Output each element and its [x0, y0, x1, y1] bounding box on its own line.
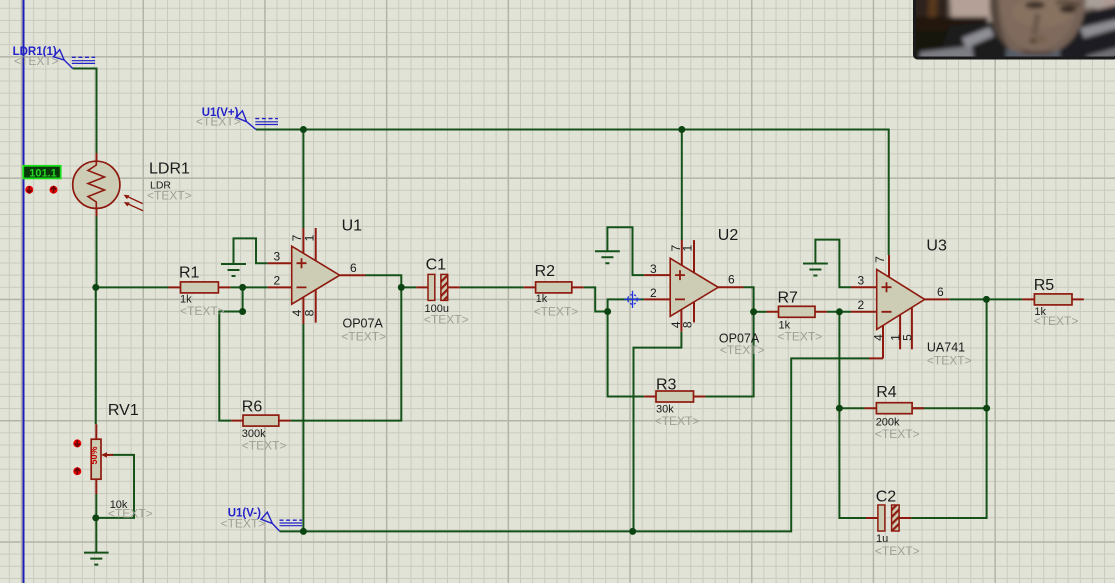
LDR1 light arrow 2	[127, 204, 143, 211]
wire: input node down to RV1	[95, 287, 97, 424]
LDR1 body	[73, 161, 120, 208]
wire: U2 output to R7 node	[744, 287, 754, 312]
cam: left shoulder sweater dark	[936, 20, 1014, 64]
wire: LDR1(1) terminal to LDR top	[73, 69, 97, 154]
svg-text:C2: C2	[876, 489, 897, 506]
pin U3.2	[851, 311, 877, 313]
svg-text:6: 6	[728, 273, 735, 287]
cam: right eyebrow	[1056, 2, 1080, 5]
node: V+ / U2 pin7	[678, 126, 685, 133]
cam: dark cushion band	[910, 17, 988, 32]
resistor R2 1k	[536, 282, 572, 293]
svg-text:2: 2	[274, 274, 281, 288]
LDR1 zigzag	[88, 162, 105, 208]
wire: C2 right to U3 output vertical	[911, 299, 987, 518]
pin U1.3	[268, 262, 292, 264]
op-amp U2 plus/minus	[675, 270, 685, 299]
svg-text:50%: 50%	[89, 446, 99, 464]
svg-text:R3: R3	[656, 377, 677, 394]
resistor R6 300k	[243, 415, 279, 426]
RV1 animation dot up	[73, 467, 81, 475]
wire: U1 feedback left leg to R6	[219, 287, 242, 420]
cam: base grayish	[904, 0, 1115, 70]
resistor R1 1k	[181, 282, 219, 293]
ground near U1	[221, 264, 246, 276]
capacitor C1 100u plate1	[428, 274, 435, 300]
svg-text:3: 3	[274, 250, 281, 264]
op-amp U1 plus/minus	[297, 258, 307, 287]
pin U2.1 stub	[693, 240, 695, 273]
op-amp U2 body	[670, 258, 718, 316]
leads R7	[767, 311, 827, 313]
wire: input node to R1	[96, 286, 169, 288]
wire: C1 to R2	[460, 286, 524, 288]
wire: node down to R4 line	[839, 312, 864, 408]
svg-text:<TEXT>: <TEXT>	[875, 427, 920, 441]
pin U2.7	[681, 240, 683, 265]
svg-text:UA741: UA741	[927, 341, 965, 355]
svg-text:1u: 1u	[876, 533, 888, 545]
leads RV1	[95, 424, 97, 494]
leads R6	[231, 420, 290, 422]
pin U3.1 stub	[899, 315, 901, 350]
svg-text:6: 6	[937, 285, 944, 299]
svg-text:1: 1	[681, 245, 695, 252]
cam: bottom-left light stripe	[920, 46, 974, 62]
pin U1.8 stub	[315, 290, 317, 323]
svg-text:<TEXT>: <TEXT>	[655, 414, 700, 428]
pin U3.4	[869, 325, 883, 358]
svg-text:<TEXT>: <TEXT>	[108, 506, 153, 520]
resistor R5 1k	[1034, 294, 1072, 305]
pin U3.5 stub	[911, 307, 913, 349]
leads R3	[644, 396, 705, 398]
svg-text:<TEXT>: <TEXT>	[1034, 314, 1079, 328]
wire: R3 to U2 output node	[705, 312, 753, 397]
cam: pink wall right column	[1096, 0, 1115, 64]
svg-text:1: 1	[302, 234, 316, 241]
wire: U2 ground staircase to pin3	[607, 227, 644, 275]
wire: R7 node right	[754, 311, 767, 313]
wire: node to U2 pin2	[608, 299, 645, 311]
cam: nose	[1034, 14, 1038, 34]
pin U1.7	[302, 228, 304, 253]
node: V- rail / U2 pin4	[629, 528, 636, 535]
node: V+ / U1 pin7	[300, 126, 307, 133]
node: U2 output / R7 / R3	[750, 308, 757, 315]
svg-text:101.1: 101.1	[29, 167, 57, 179]
leads R1	[169, 286, 231, 288]
LDR1 light arrow 1	[127, 196, 143, 203]
cam: chair wooden post	[925, 0, 938, 62]
svg-text:6: 6	[350, 261, 357, 275]
svg-text:R1: R1	[179, 265, 200, 282]
capacitor C1 100u plate2 hatched	[441, 274, 448, 300]
wire: RV1 bottom to ground	[95, 494, 97, 553]
wire: V+ rail from terminal U1(V+) across top to U3	[256, 130, 889, 256]
leads R2	[524, 286, 584, 288]
sheet border (blue)	[23, 0, 25, 583]
wire: U3 ground staircase to pin3	[815, 240, 851, 288]
svg-text:<TEXT>: <TEXT>	[196, 115, 241, 129]
pin U2.4	[680, 310, 682, 332]
cam: face left shadow	[990, 0, 1008, 48]
pin U3.6 output	[925, 298, 950, 300]
svg-text:<TEXT>: <TEXT>	[147, 189, 192, 203]
svg-text:R4: R4	[876, 384, 897, 401]
cam: left shoulder light stripe	[962, 27, 994, 48]
cam: floor shadow below cushion	[910, 31, 992, 64]
svg-text:<TEXT>: <TEXT>	[180, 304, 225, 318]
svg-text:LDR1: LDR1	[149, 161, 190, 178]
cam: chair dark left	[904, 0, 948, 70]
webcam overlay background	[904, 0, 1115, 70]
ground below RV1	[84, 553, 109, 565]
pin U3.3	[851, 286, 877, 288]
leads C1	[416, 286, 459, 288]
capacitor C2 1u plate1	[878, 505, 885, 531]
wire: RV1 wiper to bottom node	[96, 455, 134, 518]
wire: U1 ground staircase to pin3	[234, 238, 268, 264]
svg-text:R5: R5	[1034, 277, 1055, 294]
svg-text:3: 3	[858, 273, 865, 287]
resistor R3 30k	[656, 391, 694, 402]
svg-text:R2: R2	[535, 263, 556, 280]
resistor R7 1k	[779, 306, 816, 317]
ground near U2	[595, 251, 620, 263]
svg-text:<TEXT>: <TEXT>	[14, 54, 59, 68]
svg-text:<TEXT>: <TEXT>	[341, 330, 386, 344]
svg-text:<TEXT>: <TEXT>	[927, 354, 972, 368]
RV1 wiper arrow	[104, 454, 113, 456]
node: RV1 wiper / bottom	[92, 514, 99, 521]
svg-text:<TEXT>: <TEXT>	[242, 439, 287, 453]
svg-text:3: 3	[650, 262, 657, 276]
wire: V+ drop to U1 pin7	[302, 130, 304, 229]
leads LDR1	[96, 153, 98, 217]
pin U1.6 output	[340, 274, 366, 276]
op-amp U3 plus/minus	[882, 282, 892, 312]
wire: R4 to right vertical	[912, 407, 987, 409]
op-amp U3 body	[877, 269, 925, 329]
svg-text:OP07A: OP07A	[343, 316, 384, 330]
cam: right shoulder sweater	[1048, 4, 1115, 64]
node: feedback jog	[239, 308, 246, 315]
svg-text:<TEXT>: <TEXT>	[778, 329, 823, 343]
svg-text:<TEXT>: <TEXT>	[424, 312, 469, 326]
node: R4 left / C2 left	[836, 405, 843, 412]
wire: U2 pin4 route to V- rail	[634, 332, 682, 532]
node: R4 right / C2 right	[983, 405, 990, 412]
pin U2.3	[644, 274, 670, 276]
node: V- rail / U1 pin4	[300, 528, 307, 535]
leads R5	[1022, 298, 1084, 300]
cam: eyes	[1025, 1, 1045, 9]
wire: U3 output to R5	[949, 298, 1022, 300]
pin U2.6 output	[717, 286, 744, 288]
cam: collar gray	[1006, 49, 1060, 62]
webcam border	[915, 0, 1115, 58]
wire: LDR bottom to input node	[96, 217, 98, 288]
wire: V- rail from terminal U1(V-)	[280, 358, 870, 531]
node: U1 pin2	[239, 284, 246, 291]
voltage display 101.1	[23, 166, 61, 179]
pin U3.7	[888, 255, 890, 277]
wire: node down to R3	[608, 312, 645, 397]
pin U1.2	[268, 286, 292, 288]
wire: R2 to U2 inverting node	[584, 287, 608, 311]
svg-text:5: 5	[900, 334, 914, 341]
wire: U1 pin4 down to V- rail	[302, 324, 304, 531]
svg-text:<TEXT>: <TEXT>	[221, 517, 266, 531]
wire: R7 to U3 pin2	[827, 311, 851, 313]
probe dot 1	[25, 186, 33, 194]
svg-text:2: 2	[858, 298, 865, 312]
svg-text:RV1: RV1	[108, 402, 139, 419]
op-amp U1 body	[292, 246, 340, 304]
resistor R4 200k	[876, 403, 912, 414]
node: R7 / U3 pin2 / R4 branch	[836, 308, 843, 315]
origin marker (blue crosshair) at U2 pin2	[624, 291, 641, 308]
node: U1 output / C1 / R6	[398, 284, 405, 291]
svg-text:8: 8	[681, 321, 695, 328]
svg-text:8: 8	[302, 309, 316, 316]
cam: pink wall patch left of face	[950, 0, 996, 20]
terminal LDR1(1) glyph	[53, 50, 72, 69]
pin U2.2	[644, 298, 670, 300]
svg-text:R6: R6	[242, 399, 263, 416]
svg-text:<TEXT>: <TEXT>	[720, 343, 765, 357]
ground near U3	[803, 264, 828, 276]
probe dot 2	[50, 186, 58, 194]
svg-text:2: 2	[650, 286, 657, 300]
RV1 animation dot down	[73, 439, 81, 447]
pin U1.4	[302, 297, 304, 324]
leads C2	[866, 517, 911, 519]
potentiometer RV1 body	[91, 439, 101, 479]
svg-text:U2: U2	[718, 227, 739, 244]
node: U3 output / R5	[983, 296, 990, 303]
leads R4	[865, 407, 925, 409]
node: LDR / R1 / RV1	[92, 284, 99, 291]
wire: R6 to U1 output node	[291, 287, 402, 420]
cam: mouth	[1022, 51, 1052, 53]
wire: C2 left branch	[839, 408, 866, 518]
wire: R1 to U1 pin2	[230, 286, 267, 288]
svg-text:7: 7	[873, 256, 887, 263]
svg-text:U1: U1	[342, 218, 363, 235]
wire: U1 output to C1 node	[366, 275, 417, 287]
svg-text:<TEXT>: <TEXT>	[875, 544, 920, 558]
terminal U1(V-) glyph	[261, 512, 279, 531]
svg-text:U3: U3	[926, 238, 947, 255]
cam: cushion white V highlight	[984, 17, 1000, 25]
cam: beanie top right	[1070, 0, 1104, 9]
svg-text:4: 4	[872, 334, 886, 341]
lead RV1 wiper	[103, 454, 113, 456]
pin U2.8 stub	[693, 302, 695, 323]
svg-text:1k: 1k	[536, 293, 548, 305]
svg-text:R7: R7	[778, 290, 799, 307]
cam: right shoulder stripes	[1080, 18, 1115, 38]
capacitor C2 1u plate2 hatched	[892, 505, 900, 531]
svg-text:C1: C1	[426, 256, 447, 273]
terminal U1(V+) glyph	[236, 111, 256, 130]
cam: face	[990, 0, 1086, 55]
svg-text:<TEXT>: <TEXT>	[534, 305, 579, 319]
node: R2 / U2 pin2 / R3	[604, 308, 611, 315]
wire: V+ drop to U2 pin7	[681, 130, 683, 241]
pin U1.1 stub	[315, 228, 317, 261]
